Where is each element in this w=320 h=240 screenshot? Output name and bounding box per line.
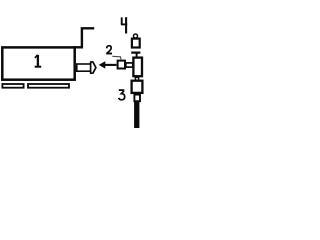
nozzle outlet (outline arrow on box right side) — [77, 62, 96, 73]
arrow 2 (solid, pointing left) — [99, 61, 117, 68]
flange bar — [131, 51, 140, 53]
neck — [134, 95, 140, 102]
label 3 — [119, 90, 125, 100]
probe bar (solid) — [134, 102, 139, 129]
label 2 — [106, 46, 112, 54]
stem — [136, 54, 138, 59]
box 1 (main apparatus body) — [2, 47, 74, 79]
component 4 body square — [132, 39, 140, 48]
component 4 ring — [134, 34, 138, 38]
label 4 — [121, 17, 127, 33]
lower square (component 3 head) — [132, 81, 143, 93]
connector between cylinder and lower square — [135, 77, 138, 80]
leader line from label 2 — [112, 56, 121, 59]
tray left (under box 1) — [2, 84, 23, 88]
background — [0, 0, 144, 128]
label 1 — [35, 55, 42, 67]
wire step line top right — [73, 28, 94, 47]
tray right (under box 1) — [28, 84, 69, 88]
stub connector — [126, 63, 133, 67]
cylinder body (tall rect) — [133, 58, 142, 77]
valve inlet square — [118, 61, 125, 69]
